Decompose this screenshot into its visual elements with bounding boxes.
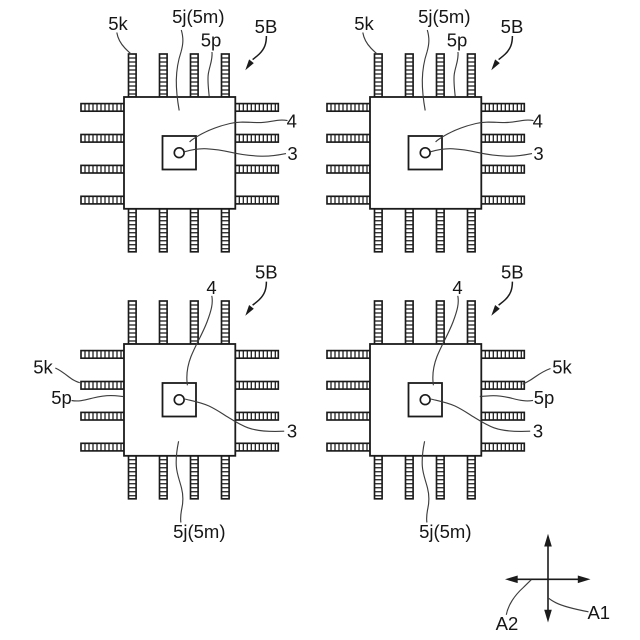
leader line from 5j(5m) into chip body (bottom-right) xyxy=(422,441,429,522)
label 5B (bottom-left unit) xyxy=(255,262,278,283)
label 5p (top-right unit) xyxy=(447,30,468,51)
leader line from 5p to chip edge (bottom-right) xyxy=(480,396,533,401)
svg-text:5j(5m): 5j(5m) xyxy=(173,521,225,542)
leader line from 3 to via hole (bottom-left) xyxy=(185,399,284,431)
chip package 5B (bottom-right) with pins 5p, body 5j(5m), inner pad 4, via hole 3 xyxy=(327,301,524,499)
leader line from 4 to inner pad (top-right) xyxy=(436,120,534,142)
svg-text:3: 3 xyxy=(287,143,297,164)
arrowhead of 5B arrow (bottom-left) xyxy=(245,305,254,316)
arrowhead left (axis A2) xyxy=(505,576,518,584)
arrow from 5B label (bottom-left) xyxy=(253,282,267,306)
leader line from 5k to top pin (top-left) xyxy=(117,33,131,55)
axis A2 horizontal double arrow xyxy=(517,578,580,580)
chip package 5B (bottom-left) with pins 5p, body 5j(5m), inner pad 4, via hole 3 xyxy=(81,301,278,499)
svg-text:5k: 5k xyxy=(33,357,53,378)
label 4 (bottom-right unit) xyxy=(452,277,462,298)
leader line from 5j(5m) into chip body (top-left) xyxy=(176,30,183,111)
label 5k (top-right unit) xyxy=(354,13,374,34)
svg-text:5B: 5B xyxy=(501,262,524,283)
label 4 (bottom-left unit) xyxy=(206,277,216,298)
svg-text:4: 4 xyxy=(287,111,297,132)
svg-text:5p: 5p xyxy=(201,30,222,51)
label 3 (bottom-left unit) xyxy=(287,421,297,442)
svg-text:5j(5m): 5j(5m) xyxy=(419,521,471,542)
svg-text:3: 3 xyxy=(533,143,543,164)
svg-text:5B: 5B xyxy=(255,16,278,37)
label 3 (top-left unit) xyxy=(287,143,297,164)
label 3 (bottom-right unit) xyxy=(533,421,543,442)
svg-text:5k: 5k xyxy=(108,13,128,34)
leader line from 5p to chip edge (top-left) xyxy=(208,52,212,96)
leader line from A1 to vertical axis xyxy=(549,598,589,612)
svg-text:4: 4 xyxy=(533,111,543,132)
svg-text:5j(5m): 5j(5m) xyxy=(418,6,470,27)
label 5k (top-left unit) xyxy=(108,13,128,34)
svg-text:5p: 5p xyxy=(534,387,555,408)
arrowhead right (axis A2) xyxy=(578,576,591,584)
leader line from 4 to inner pad (bottom-right) xyxy=(433,296,458,386)
svg-text:5k: 5k xyxy=(354,13,374,34)
svg-text:5p: 5p xyxy=(51,387,72,408)
leader line from 5p to chip edge (bottom-left) xyxy=(72,396,124,401)
arrowhead of 5B arrow (top-left) xyxy=(245,59,254,70)
svg-text:A2: A2 xyxy=(496,613,519,634)
chip package 5B (top-right) with pins 5p, body 5j(5m), inner pad 4, via hole 3 xyxy=(327,54,524,252)
arrow from 5B label (top-right) xyxy=(499,36,513,60)
leader line from 5k to top pin (top-right) xyxy=(363,33,377,55)
label 4 (top-right unit) xyxy=(533,111,543,132)
leader line from 3 to via hole (top-right) xyxy=(430,149,532,157)
label 5B (top-right unit) xyxy=(501,16,524,37)
leader line from 4 to inner pad (top-left) xyxy=(190,120,288,142)
label 5p (top-left unit) xyxy=(201,30,222,51)
arrowhead down (axis A1) xyxy=(544,610,552,623)
label 5j(5m) (bottom-left unit) xyxy=(173,521,225,542)
label 5j(5m) (bottom-right unit) xyxy=(419,521,471,542)
leader line from 5j(5m) into chip body (top-right) xyxy=(422,30,429,111)
arrowhead of 5B arrow (bottom-right) xyxy=(491,305,500,316)
leader line from 5k to right pin (bottom-right) xyxy=(523,369,551,385)
svg-text:5B: 5B xyxy=(255,262,278,283)
arrowhead of 5B arrow (top-right) xyxy=(491,59,500,70)
svg-text:4: 4 xyxy=(206,277,216,298)
leader line from 5j(5m) into chip body (bottom-left) xyxy=(176,441,183,522)
svg-text:3: 3 xyxy=(533,421,543,442)
svg-text:5k: 5k xyxy=(552,357,572,378)
leader line from A2 to horizontal axis xyxy=(506,580,531,615)
label 5j(5m) (top-right unit) xyxy=(418,6,470,27)
svg-text:5B: 5B xyxy=(501,16,524,37)
label 3 (top-right unit) xyxy=(533,143,543,164)
leader line from 3 to via hole (bottom-right) xyxy=(431,399,530,431)
leader line from 5k to left pin (bottom-left) xyxy=(55,368,80,383)
svg-text:5j(5m): 5j(5m) xyxy=(172,6,224,27)
svg-text:4: 4 xyxy=(452,277,462,298)
arrowhead up (axis A1) xyxy=(544,534,552,547)
svg-text:5p: 5p xyxy=(447,30,468,51)
svg-text:3: 3 xyxy=(287,421,297,442)
arrow from 5B label (bottom-right) xyxy=(499,282,513,306)
leader line from 4 to inner pad (bottom-left) xyxy=(187,296,212,386)
arrow from 5B label (top-left) xyxy=(253,36,267,60)
label 5B (top-left unit) xyxy=(255,16,278,37)
leader line from 3 to via hole (top-left) xyxy=(184,149,286,157)
label 4 (top-left unit) xyxy=(287,111,297,132)
label 5B (bottom-right unit) xyxy=(501,262,524,283)
label 5j(5m) (top-left unit) xyxy=(172,6,224,27)
svg-text:A1: A1 xyxy=(587,602,610,623)
axis A1 vertical double arrow xyxy=(547,546,549,611)
chip package 5B (top-left) with pins 5p, body 5j(5m), inner pad 4, via hole 3 xyxy=(81,54,278,252)
leader line from 5p to chip edge (top-right) xyxy=(454,52,458,96)
